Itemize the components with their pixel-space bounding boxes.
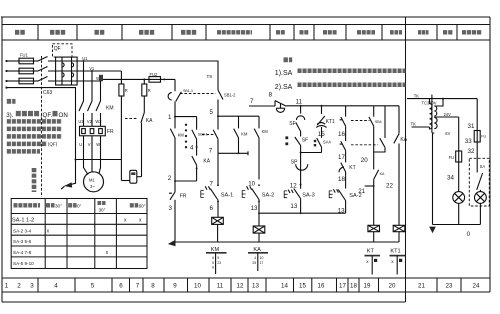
relay KA contact (KT branch) <box>374 170 379 179</box>
header zone row <box>2 24 490 26</box>
pushbutton SB2-1 contact <box>196 117 198 130</box>
svg-text:8: 8 <box>151 283 155 290</box>
timer coil KT <box>368 225 380 231</box>
relay coil KA <box>253 226 265 233</box>
wire W to motor <box>99 136 101 174</box>
svg-text:4: 4 <box>190 145 194 152</box>
breaker QF inner pole 1 <box>62 57 64 85</box>
svg-text:11: 11 <box>217 283 224 290</box>
cam switch SA-2 contact <box>242 186 259 199</box>
wire V to motor <box>91 136 93 173</box>
svg-text:6V: 6V <box>445 131 450 136</box>
svg-text:24V: 24V <box>444 112 452 117</box>
wire control bus (net 11) <box>286 105 399 107</box>
circuit breaker QF body <box>56 57 78 85</box>
breaker QF inner pole 2 <box>72 57 74 85</box>
ground (protective earth branch) <box>71 160 76 185</box>
svg-text:TC380V: TC380V <box>422 101 437 106</box>
bottom bus arrow end <box>168 240 176 246</box>
svg-text:SB4: SB4 <box>375 120 382 124</box>
wire W1 drop <box>100 81 102 101</box>
transformer secondary upper winding <box>434 106 437 116</box>
mechanical link SB1 (dashed) <box>180 93 216 95</box>
contactor KM main contact 1 <box>79 101 84 111</box>
junction net13 at KA coil <box>258 212 260 214</box>
wire phase L2 through breaker <box>48 70 121 72</box>
fuse FU1 pole 2 <box>19 68 34 74</box>
svg-text:KT: KT <box>349 165 355 171</box>
wire to switch box <box>476 142 478 173</box>
svg-text:TK: TK <box>411 122 417 127</box>
svg-text:SA-3 5-6: SA-3 5-6 <box>13 239 32 244</box>
svg-text:KM: KM <box>241 131 248 136</box>
transformer TC core <box>431 95 433 133</box>
junction transformer top <box>442 98 444 100</box>
svg-text:FU: FU <box>481 135 486 139</box>
wire 7 horizontal <box>218 152 248 154</box>
svg-text:(QF): (QF) <box>48 142 58 147</box>
mechanical link SB4 (dashed) <box>351 120 370 122</box>
svg-text:21: 21 <box>358 188 365 195</box>
header zone labels (tiny CJK rendered as blob runs) <box>15 30 482 35</box>
wire primary bottom stub <box>412 126 430 128</box>
svg-text:12: 12 <box>290 182 297 189</box>
svg-text:FR: FR <box>180 194 187 200</box>
wire 24V tap <box>434 116 458 118</box>
svg-text:V2: V2 <box>87 119 93 124</box>
svg-text:3: 3 <box>30 283 34 290</box>
svg-text:M1: M1 <box>89 178 95 183</box>
svg-text:FU1: FU1 <box>20 53 28 58</box>
svg-text:33: 33 <box>465 138 472 145</box>
wire secondary top lead <box>434 99 443 106</box>
contact table KM <box>206 247 227 274</box>
junction bus x321 <box>321 105 323 107</box>
wire L3 to switch <box>34 80 39 82</box>
thermal relay FR heater box <box>80 126 106 136</box>
SA table x marks <box>47 217 142 256</box>
contactor KM main contact 2 <box>88 101 93 111</box>
svg-text:KM: KM <box>262 129 269 134</box>
fuse FU4 <box>474 131 480 143</box>
wire U1 drop <box>83 61 85 101</box>
fuse FU3 <box>456 151 462 162</box>
svg-text:U2: U2 <box>78 119 84 124</box>
svg-text:5: 5 <box>91 283 95 290</box>
svg-text:(QF.: (QF. <box>41 112 53 119</box>
wire rail B drop to SB1 <box>174 79 176 91</box>
contact table KA <box>248 247 268 271</box>
svg-text:KM: KM <box>211 247 220 253</box>
svg-text:8: 8 <box>269 91 273 98</box>
switch SA4 contact <box>314 140 316 147</box>
svg-text:6: 6 <box>119 283 123 290</box>
svg-text:SB1-1: SB1-1 <box>183 89 193 93</box>
wire lamp chain B down <box>476 99 478 131</box>
svg-text:13: 13 <box>290 203 297 210</box>
svg-text:17: 17 <box>260 261 264 265</box>
svg-text:SF: SF <box>302 138 308 144</box>
pushbutton SB5 contact <box>341 141 346 150</box>
thermal relay FR heater elements <box>82 129 103 134</box>
fuse FU1 pole 1 <box>19 58 34 64</box>
wire L1 to switch <box>34 60 39 62</box>
note block left: 说明 <box>7 99 16 104</box>
svg-text:FR: FR <box>107 129 114 135</box>
svg-text:21: 21 <box>418 283 425 290</box>
svg-text:5: 5 <box>210 109 214 116</box>
wire phase L1 <box>5 60 7 62</box>
svg-text:R: R <box>125 88 128 93</box>
pushbutton SF contact 2 <box>285 136 288 145</box>
svg-text:KA: KA <box>203 159 210 165</box>
thermal relay FR NC contact (control) <box>170 192 175 200</box>
svg-text:TS: TS <box>207 74 213 79</box>
wire bottom net 0 (lighting) <box>433 224 481 226</box>
svg-text:2: 2 <box>168 175 172 182</box>
svg-text:4: 4 <box>254 256 256 260</box>
svg-text:7: 7 <box>136 283 140 290</box>
pushbutton SB1-2 contact <box>218 90 223 100</box>
wire U to motor <box>84 136 89 175</box>
svg-text:SP: SP <box>291 160 298 166</box>
svg-text:SA-2: SA-2 <box>262 192 274 198</box>
svg-text:15: 15 <box>318 131 325 138</box>
svg-text:SA-1: SA-1 <box>221 192 233 198</box>
svg-text:13: 13 <box>338 208 345 215</box>
switch enclosure (dashed) <box>469 158 489 206</box>
resistor R1 (braking) <box>120 71 122 84</box>
svg-text:7: 7 <box>209 147 213 154</box>
wire node1 branch <box>175 116 197 118</box>
svg-text:SB1-2: SB1-2 <box>224 92 236 97</box>
svg-text:18: 18 <box>350 283 357 290</box>
wire PE line <box>7 88 76 160</box>
contactor coil KM <box>212 217 224 224</box>
wire lamp chain A down <box>458 117 460 151</box>
svg-text:6: 6 <box>212 256 214 260</box>
timer KT delayed contact <box>341 163 346 172</box>
SA table header labels <box>14 203 41 207</box>
junction node 4 <box>196 146 198 148</box>
svg-text:20: 20 <box>361 157 368 164</box>
svg-text:ON: ON <box>59 112 68 119</box>
svg-text:20: 20 <box>389 283 396 290</box>
svg-text:TK: TK <box>414 93 420 98</box>
lamp HL <box>475 192 487 204</box>
resistor R2 (braking) <box>143 79 145 84</box>
svg-text:10: 10 <box>194 283 201 290</box>
relay KA contact (braking, power) <box>143 96 145 113</box>
svg-text:18: 18 <box>338 176 345 183</box>
svg-text:17: 17 <box>339 283 346 290</box>
svg-text:R: R <box>148 88 151 93</box>
contact table KT1 <box>390 249 406 275</box>
wire lamp EL down <box>458 203 460 224</box>
pushbutton SB2-2 contact <box>217 116 219 129</box>
wire L2 to switch <box>34 70 39 72</box>
svg-text:2: 2 <box>17 283 21 290</box>
mechanical link SB2 (dashed) <box>202 134 216 136</box>
svg-text:13: 13 <box>251 205 258 212</box>
svg-text:13: 13 <box>252 283 259 290</box>
contactor KM main contact 3 <box>96 101 101 111</box>
transformer secondary lower winding <box>434 118 437 129</box>
svg-text:60°: 60° <box>139 203 146 208</box>
svg-text:7: 7 <box>210 180 214 187</box>
svg-text:23: 23 <box>446 283 453 290</box>
contact table KT <box>365 249 381 275</box>
svg-text:SA: SA <box>480 164 486 169</box>
junction node 5 <box>217 115 219 117</box>
svg-text:KM: KM <box>178 133 185 138</box>
svg-text:3).: 3). <box>6 112 14 119</box>
svg-text:10: 10 <box>248 180 255 187</box>
pushbutton SB5-2 contact <box>384 106 386 138</box>
pushbutton SP contact <box>296 164 308 170</box>
svg-text:KT1: KT1 <box>326 119 335 125</box>
svg-text:30°: 30° <box>99 208 106 213</box>
svg-text:W: W <box>96 142 100 147</box>
junction on wire 7 <box>238 152 240 154</box>
switch QS mechanical link (dashed) <box>41 56 43 197</box>
svg-text:34: 34 <box>447 175 454 182</box>
svg-text:SF: SF <box>289 121 295 127</box>
main vertical divider <box>405 17 407 292</box>
svg-text:KA: KA <box>253 247 261 253</box>
svg-text:17: 17 <box>338 154 345 161</box>
switch QS pole 2 <box>38 67 48 72</box>
pushbutton SB1-1 (mushroom head, NC) <box>168 93 172 100</box>
svg-text:15: 15 <box>299 283 306 290</box>
wire 6V lead <box>433 133 435 225</box>
svg-text:11: 11 <box>296 98 303 105</box>
contactor KM aux contact (self hold) <box>238 116 240 128</box>
svg-text:KT: KT <box>367 249 375 255</box>
wire phase L3 through breaker <box>48 80 101 82</box>
svg-text:W2: W2 <box>95 119 102 124</box>
svg-text:6: 6 <box>210 205 214 212</box>
contactor KM aux contact (chain KA) <box>258 116 260 128</box>
contactor KM aux contact (chain 1) <box>174 117 176 129</box>
svg-text:KA: KA <box>400 137 407 143</box>
svg-text:16: 16 <box>338 131 345 138</box>
svg-text:2).SA: 2).SA <box>275 84 293 91</box>
wire node5 branch <box>218 115 259 117</box>
cam switch SA-1 contact <box>201 186 218 199</box>
svg-text:V: V <box>88 142 91 147</box>
svg-text:FU2: FU2 <box>150 72 158 77</box>
wire lamp HL down <box>479 203 481 224</box>
svg-text:19: 19 <box>364 283 371 290</box>
ground arrow (lighting return) <box>429 227 436 234</box>
svg-text:KM: KM <box>106 106 114 112</box>
svg-text:U: U <box>79 142 82 147</box>
fuse FU1 pole 3 <box>19 78 34 84</box>
svg-text:12: 12 <box>237 283 244 290</box>
cam switch SA-3 contact <box>284 189 300 199</box>
note small lines <box>7 119 62 124</box>
wire tie 15-branch to SF branch <box>301 152 322 154</box>
junction node 12 <box>300 184 302 186</box>
motor M1 <box>84 172 104 192</box>
timer KT1 delayed contact <box>321 106 323 114</box>
svg-text:KT1: KT1 <box>390 249 400 255</box>
wire step joining node 2 <box>175 180 197 182</box>
svg-text:U1: U1 <box>82 56 88 61</box>
svg-text:C63: C63 <box>43 90 52 96</box>
junction tie x300 <box>300 152 302 154</box>
svg-text:9: 9 <box>217 256 219 260</box>
svg-text:23: 23 <box>217 261 221 265</box>
mechanical link dots <box>185 124 187 149</box>
svg-text:31: 31 <box>468 123 475 130</box>
wire rail B (control feed, 2nd rail) <box>100 78 175 80</box>
svg-text:22: 22 <box>386 183 393 190</box>
svg-text:SA-4 7-8: SA-4 7-8 <box>13 250 32 255</box>
relay KA contact (KT1 branch) <box>398 106 400 134</box>
svg-text:30°: 30° <box>55 203 62 208</box>
svg-text:8: 8 <box>212 266 214 270</box>
svg-text:3: 3 <box>169 205 173 212</box>
foot switch SB3 (mushroom) <box>274 101 276 106</box>
svg-text:SA-2 3-4: SA-2 3-4 <box>13 228 32 233</box>
svg-text:SA-5 9-10: SA-5 9-10 <box>13 261 34 266</box>
svg-text:V1: V1 <box>89 66 95 71</box>
junction bus x300 <box>300 105 302 107</box>
wire pedal stub (net 7) <box>249 105 275 107</box>
svg-text:4: 4 <box>54 283 58 290</box>
svg-text:QF: QF <box>54 46 61 52</box>
bottom number row <box>2 277 490 279</box>
junction SA-3/net13 <box>300 212 302 214</box>
svg-text:24: 24 <box>473 283 480 290</box>
svg-text:16: 16 <box>318 283 325 290</box>
circuit breaker QF mechanism box (dashed) <box>53 44 73 57</box>
note block right: 说明 <box>284 57 293 62</box>
svg-text:25: 25 <box>252 261 256 265</box>
svg-text:KA: KA <box>380 172 385 176</box>
lamp EL <box>453 192 465 204</box>
wire net 13 bus <box>259 212 346 214</box>
fuse FU2 <box>149 77 161 83</box>
wire bottom return bus (net 0) <box>173 241 399 243</box>
svg-text:1).SA: 1).SA <box>275 70 293 77</box>
transformer TC primary winding <box>430 99 433 129</box>
svg-text:0: 0 <box>467 231 471 238</box>
svg-text:9: 9 <box>173 283 177 290</box>
pushbutton SF contact 1 (cap style) <box>300 106 302 114</box>
switch QS pole 3 <box>38 77 48 82</box>
svg-text:FU: FU <box>449 155 455 160</box>
rectifier VC <box>121 180 129 182</box>
svg-text:SA-1 1-2: SA-1 1-2 <box>12 218 34 224</box>
svg-text:SA4: SA4 <box>323 140 331 145</box>
wire transformer primary feed (top) <box>407 98 477 100</box>
switch QS pole 1 <box>38 57 48 62</box>
svg-text:32: 32 <box>468 148 475 155</box>
junction node 1 <box>174 116 176 118</box>
svg-text:5: 5 <box>212 261 214 265</box>
wire fuse to lamp EL <box>458 162 460 192</box>
svg-text:3~: 3~ <box>90 184 95 189</box>
switch SA lamp contact <box>477 173 483 190</box>
pushbutton SB4-1 contact <box>345 106 347 117</box>
svg-text:7: 7 <box>250 98 254 105</box>
timer coil KT1 <box>393 225 405 231</box>
mechanical link SB5 (dashed) <box>351 144 378 146</box>
note vertical caption <box>32 168 37 192</box>
wire node2 down <box>174 181 176 192</box>
svg-text:1: 1 <box>168 114 172 121</box>
cam switch SA-2b contact <box>329 189 345 200</box>
wire node 21 tie <box>365 185 374 187</box>
relay KA mechanical link dashes <box>125 118 138 120</box>
svg-text:14: 14 <box>281 283 288 290</box>
svg-text:10: 10 <box>260 256 264 260</box>
svg-text:KA: KA <box>146 118 153 124</box>
svg-text:0°: 0° <box>77 203 82 208</box>
wire rail A (phase 1 feed to control, net 1) <box>48 61 218 90</box>
svg-text:1: 1 <box>5 283 9 290</box>
svg-text:SA-3: SA-3 <box>302 192 314 198</box>
relay KA aux contact (chain 1) <box>192 156 197 165</box>
junction on rail B (x=144.3) <box>143 78 145 80</box>
wire R1 down to rectifier <box>120 96 122 181</box>
wire V1 drop <box>91 71 93 101</box>
wire braking tap <box>76 159 122 161</box>
junction below KA <box>196 168 198 170</box>
